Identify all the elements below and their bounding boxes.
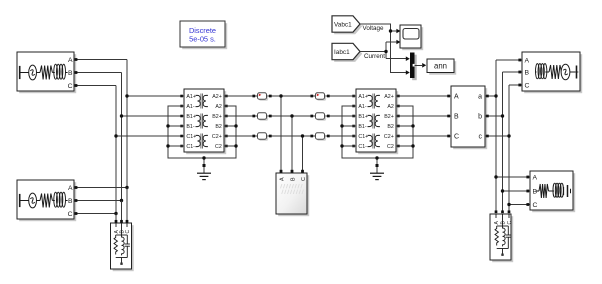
junction T1 right bus B2- [234, 124, 237, 127]
port mark fault terminal A [280, 170, 283, 173]
svg-text:c: c [479, 134, 483, 141]
port mark load L1 terminal A [115, 220, 118, 223]
junction T2 left bus C1- [340, 144, 343, 147]
svg-text:C2: C2 [387, 144, 394, 150]
port mark load L2 terminal C [508, 210, 511, 213]
port mark measurement in B [447, 115, 450, 118]
wire bus a to S4.A [496, 176, 530, 178]
junction phase A / S2.A [125, 186, 128, 189]
linear transformer T1 (three windings) [184, 89, 226, 154]
svg-text:B2: B2 [387, 124, 394, 130]
wire T1 B2- stub [224, 125, 236, 127]
port mark T2 right pin 3 [397, 115, 400, 118]
wire measurement b to right bus B [485, 115, 503, 117]
svg-text:C: C [525, 82, 530, 89]
svg-text:Iabc1: Iabc1 [334, 49, 350, 56]
port mark fault terminal C [301, 170, 304, 173]
port mark measurement out b [486, 115, 489, 118]
wire row C down to fault terminal C [302, 136, 304, 173]
svg-text:Voltage: Voltage [363, 25, 385, 32]
wire S2.B to phase B bus [74, 200, 122, 202]
junction T2 neutral to ground G2 [375, 156, 378, 159]
port mark S3.B [518, 71, 521, 74]
wire right bus phase b vertical x=502.5 [502, 72, 504, 212]
port mark load L1 terminal C [126, 220, 129, 223]
wire S2.C to phase C bus [74, 213, 116, 215]
svg-text:B1+: B1+ [358, 114, 368, 120]
svg-text:A1+: A1+ [358, 94, 368, 100]
three-phase source S1 (top left) [17, 52, 76, 93]
junction T1 right bus C2- [234, 144, 237, 147]
junction bus a / measurement a [494, 94, 497, 97]
wire T1 secondary/primary neutral loop [168, 106, 236, 158]
port mark T2 left pin 5 [352, 135, 355, 138]
svg-text:A: A [533, 174, 538, 181]
ground G1 under T1 [197, 158, 211, 180]
port mark measurement in A [447, 95, 450, 98]
port mark T1 left pin 1 [180, 95, 183, 98]
svg-text:A1-: A1- [186, 104, 194, 110]
wire phase B vertical bus x=121.5 [121, 73, 123, 201]
svg-text:C1-: C1- [186, 144, 195, 150]
junction phase B / T1 B1+ [120, 114, 123, 117]
svg-text:A: A [525, 57, 530, 64]
svg-text:C: C [533, 202, 538, 209]
svg-text:B2+: B2+ [384, 114, 394, 120]
svg-text:A2+: A2+ [384, 94, 394, 100]
three-phase source S3 (top right) [522, 52, 582, 93]
svg-text:C2: C2 [215, 144, 222, 150]
wire phase B to T1 B1+ [122, 115, 185, 117]
port mark T1 left pin 3 [180, 115, 183, 118]
svg-text:B1+: B1+ [186, 114, 196, 120]
svg-text:A: A [454, 94, 459, 101]
port mark measurement out c [486, 135, 489, 138]
svg-text:A2: A2 [387, 104, 394, 110]
wire right bus b to S3.B [503, 71, 523, 73]
port mark T2 left pin 1 [352, 95, 355, 98]
svg-text:C1+: C1+ [186, 134, 196, 140]
svg-text:B1-: B1- [358, 124, 366, 130]
wire row B down to fault terminal B [291, 116, 293, 173]
breaker BRK2 (phase B, left) [252, 113, 271, 121]
junction bus c / measurement c [507, 134, 510, 137]
port mark S4.C [526, 203, 529, 206]
wire row C (T1 C2+ to T2 C1+) [224, 135, 356, 137]
wire T1 B1- stub [168, 125, 184, 127]
wire phase A: S1.A to vertical bus [74, 59, 127, 61]
output port mark S2.A [75, 186, 78, 189]
breaker BRK1 (phase A, left) [252, 93, 271, 101]
port mark T2 left pin 4 [352, 125, 355, 128]
output port mark S1.C [75, 84, 78, 87]
svg-text:B: B [525, 69, 530, 76]
output port mark S1.A [75, 58, 78, 61]
port mark measurement out a [486, 95, 489, 98]
port mark S3.C [518, 84, 521, 87]
wire bus b to S4.B [503, 190, 531, 192]
port mark T2 left pin 3 [352, 115, 355, 118]
wire row A (T1 A2+ to T2 A1+) [224, 95, 356, 97]
breaker BRK4 (phase A, right) [310, 93, 329, 101]
output port mark S2.B [75, 199, 78, 202]
wire right bus phase c vertical x=509 [508, 85, 510, 212]
svg-text:C2+: C2+ [212, 134, 222, 140]
three-phase parallel RLC load L2 [490, 214, 513, 262]
breaker BRK6 (phase C, right) [310, 133, 329, 141]
wire S2.A to phase A bus [74, 187, 127, 189]
wire T2 C2- stub [396, 145, 413, 147]
port mark T1 right pin 2 [225, 105, 228, 108]
port mark T2 right pin 6 [397, 145, 400, 148]
three-phase parallel RLC load L1 [111, 223, 134, 271]
svg-text:5e-05 s.: 5e-05 s. [189, 35, 216, 44]
svg-text:C: C [301, 177, 307, 181]
port mark load L2 terminal B [501, 210, 504, 213]
junction bus c / S4.C [507, 203, 510, 206]
port mark T1 left pin 4 [180, 125, 183, 128]
wire row A down to fault terminal A [280, 96, 282, 173]
junction bus b / S4.B [501, 189, 504, 192]
svg-text:A2+: A2+ [212, 94, 222, 100]
port mark load L2 terminal A [495, 210, 498, 213]
breaker BRK5 (phase B, right) [310, 113, 329, 121]
scope U_scope [396, 25, 423, 50]
wire T1 C1- stub [168, 145, 184, 147]
svg-text:a: a [478, 94, 482, 101]
svg-text:A: A [279, 177, 285, 181]
wire T2 B1- stub [342, 125, 356, 127]
svg-text:Vabc1: Vabc1 [334, 21, 352, 28]
powergui block (Discrete 5e-05 s.) [180, 21, 227, 49]
junction phase A / T1 A1+ [125, 94, 128, 97]
svg-text:B: B [68, 70, 73, 77]
svg-text:B2+: B2+ [212, 114, 222, 120]
svg-text:C1-: C1- [358, 144, 367, 150]
breaker BRK3 (phase C, left) [252, 133, 271, 141]
wire phase C: S1.C to vertical bus [74, 85, 116, 87]
three-phase fault block FLT [276, 173, 309, 216]
wire right bus a to S3.A [496, 59, 522, 61]
wire phase A bus down to load L1 terminal C [126, 188, 128, 222]
wire row B (T1 B2+ to T2 B1+) [224, 115, 356, 117]
svg-text:A: A [68, 185, 73, 192]
wire phase A to T1 A1+ [127, 95, 184, 97]
svg-text:Discrete: Discrete [189, 26, 216, 35]
junction T2 right bus B2- [411, 124, 414, 127]
junction on Voltage wire at Scope in1 branch [389, 29, 392, 32]
wire mux output to ann [415, 63, 427, 68]
port mark T1 right pin 4 [225, 125, 228, 128]
junction phase C / S2.C [114, 212, 117, 215]
svg-text:C: C [125, 230, 131, 234]
port mark S4.A [526, 176, 529, 179]
wire measurement a to right bus A [485, 95, 496, 97]
wire Voltage (Vabc1 to Scope in1 and Mux in2) [360, 24, 406, 73]
port mark measurement in C [447, 135, 450, 138]
svg-text:C: C [68, 211, 73, 218]
svg-text:C: C [454, 134, 459, 141]
junction row C / fault C [301, 134, 304, 137]
svg-text:C1+: C1+ [358, 134, 368, 140]
junction T2 left bus B1- [340, 124, 343, 127]
wire phase C to T1 C1+ [116, 135, 184, 137]
port mark T2 right pin 2 [397, 105, 400, 108]
svg-text:B: B [68, 198, 73, 205]
svg-text:B: B [290, 177, 296, 181]
wire T1 C2- stub [224, 145, 236, 147]
wire right bus phase a vertical x=496 [495, 60, 497, 212]
svg-text:b: b [478, 114, 482, 121]
junction T1 left bus B1- [166, 124, 169, 127]
port mark T2 left pin 2 [352, 105, 355, 108]
three-phase RL branch S4 (bottom right) [530, 171, 575, 212]
output port mark S2.C [75, 212, 78, 215]
junction phase B / S2.B [120, 199, 123, 202]
wire T2 A2+ to measurement A [396, 95, 451, 97]
junction T2 right bus C2- [411, 144, 414, 147]
wire T2 B2- stub [396, 125, 413, 127]
wire phase C vertical bus x=116 [115, 86, 117, 214]
wire T2 B2+ to measurement B [396, 115, 451, 117]
svg-text:A2: A2 [215, 104, 222, 110]
port mark T2 right pin 1 [397, 95, 400, 98]
three-phase source S2 (bottom left) [17, 180, 76, 221]
wire T2 C1- stub [342, 145, 356, 147]
linear transformer T2 (three windings) [356, 89, 398, 154]
svg-text:B1-: B1- [186, 124, 194, 130]
svg-text:A1+: A1+ [186, 94, 196, 100]
ground G2 under T2 [370, 158, 384, 180]
wire bus c to S4.C [509, 204, 530, 206]
wire T2 C2+ to measurement C [396, 135, 451, 137]
svg-text:ann: ann [434, 61, 447, 70]
svg-text:A: A [68, 57, 73, 64]
port mark load L1 terminal B [120, 220, 123, 223]
wire right bus c to S3.C [509, 84, 522, 86]
junction row B / fault B [290, 114, 293, 117]
wire phase C bus down to load L1 terminal A [115, 214, 117, 222]
junction T1 neutral to ground G1 [202, 156, 205, 159]
wire phase A vertical bus x=127 [126, 60, 128, 188]
wire measurement c to right bus C [485, 135, 509, 137]
output port mark S1.B [75, 71, 78, 74]
svg-text:B: B [454, 114, 459, 121]
port mark T2 right pin 5 [397, 135, 400, 138]
port mark T1 right pin 1 [225, 95, 228, 98]
svg-text:C: C [68, 83, 73, 90]
svg-text:C2+: C2+ [384, 134, 394, 140]
svg-text:B2: B2 [215, 124, 222, 130]
junction bus b / measurement b [501, 114, 504, 117]
wire Current (Iabc1 to Scope in2 and Mux in1) [360, 42, 406, 59]
svg-text:A1-: A1- [358, 104, 366, 110]
port mark T1 right pin 3 [225, 115, 228, 118]
port mark T1 right pin 6 [225, 145, 228, 148]
port mark fault terminal B [291, 170, 294, 173]
From tag Vabc1 [332, 16, 362, 34]
svg-text:C: C [507, 221, 513, 225]
junction row A / fault A [279, 94, 282, 97]
junction on Current wire [384, 50, 387, 53]
From tag Iabc1 [332, 43, 362, 62]
junction T1 left bus C1- [166, 144, 169, 147]
port mark T1 left pin 2 [180, 105, 183, 108]
three-phase V-I measurement block VI1 [451, 86, 487, 149]
wire phase B bus down to load L1 terminal B [121, 201, 123, 222]
wire phase B: S1.B to vertical bus [74, 72, 122, 74]
port mark S4.B [526, 190, 529, 193]
port mark T2 right pin 4 [397, 125, 400, 128]
port mark T1 left pin 6 [180, 145, 183, 148]
port mark T1 left pin 5 [180, 135, 183, 138]
port mark T1 right pin 5 [225, 135, 228, 138]
junction phase C / T1 C1+ [114, 134, 117, 137]
wire T2 neutral loop [342, 106, 413, 158]
port mark S3.A [518, 59, 521, 62]
port mark T2 left pin 6 [352, 145, 355, 148]
svg-text:Current: Current [364, 53, 385, 60]
display ann [427, 59, 456, 75]
mux M1 (2-input) [406, 53, 417, 81]
junction bus a / S4.A [494, 175, 497, 178]
svg-text:B: B [533, 188, 538, 195]
